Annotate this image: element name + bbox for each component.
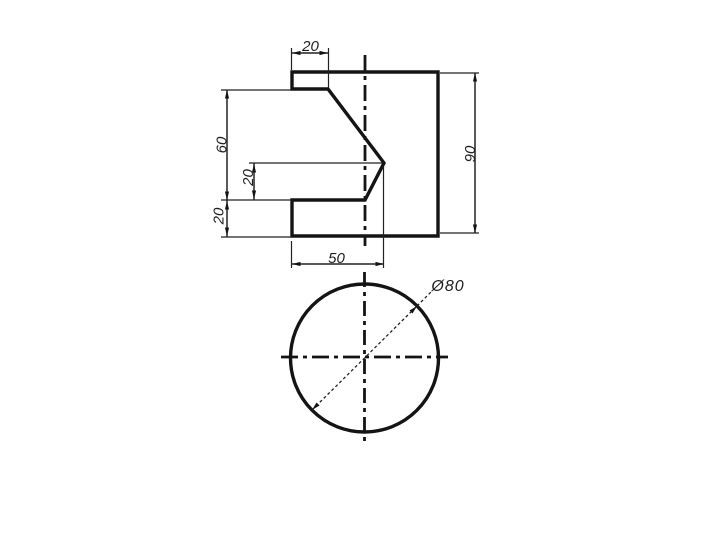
dimension 20 (top) left arrow (292, 51, 301, 55)
dimension 20 (middle) dimension line (253, 163, 255, 200)
dimension 60 (left) bottom arrow (225, 192, 229, 201)
dimension 20 (middle) bottom arrow (252, 191, 256, 200)
dimension 20 (top) dimension line (292, 52, 328, 54)
circle (bottom view) (291, 284, 439, 432)
dimension 50 (bottom) extension line left (291, 241, 293, 268)
dimension 20 (bottom left) dimension line (226, 200, 228, 237)
dimension 20 (bottom left) top arrow (225, 201, 229, 210)
diameter dimension line (diagonal across circle) (312, 306, 417, 410)
dimension 90 (right) bottom arrow (473, 225, 477, 234)
horizontal centerline (circle view) (281, 356, 448, 359)
dimension 50 (bottom) left arrow (292, 262, 301, 266)
dimension 20 (middle) top arrow (252, 164, 256, 173)
dimension 60 (left) dimension line (226, 90, 228, 200)
dimension 50 (bottom) extension line right (383, 167, 385, 268)
dimension 50 (bottom) right arrow (376, 262, 385, 266)
dimension 20 (bottom left) extension line bottom (221, 236, 291, 238)
svg-text:Ø80: Ø80 (430, 278, 464, 295)
dimension 20 (top) right arrow (320, 51, 329, 55)
svg-text:20: 20 (240, 169, 257, 187)
dimension 90 (right) extension line bottom (440, 232, 479, 234)
dimension 60 (left) extension line top (221, 89, 291, 91)
vertical centerline (circle view) (363, 272, 366, 441)
svg-text:20: 20 (211, 207, 228, 225)
dimension 20 (bottom left) bottom arrow (225, 228, 229, 237)
svg-text:90: 90 (462, 145, 479, 162)
dimension 90 (right) top arrow (473, 73, 477, 82)
dimension 90 (right) dimension line (474, 73, 476, 233)
diameter leader line (417, 292, 431, 306)
dimension 20 (middle) extension line at notch apex (249, 162, 382, 164)
diameter upper-right arrow (410, 306, 418, 314)
dimension 60 (left) extension line bottom (221, 199, 291, 201)
svg-text:60: 60 (214, 136, 231, 153)
dimension 20 (top) extension line right (328, 48, 330, 88)
dimension 20 (top) extension line left (291, 48, 293, 70)
svg-text:50: 50 (328, 250, 345, 267)
svg-text:20: 20 (301, 38, 319, 55)
diameter lower-left arrow (312, 403, 320, 411)
dimension 90 (right) extension line top (440, 72, 479, 74)
vertical centerline (front view) (364, 55, 367, 246)
dimension 50 (bottom) dimension line (292, 263, 384, 265)
front view outline (292, 72, 438, 236)
dimension 60 (left) top arrow (225, 90, 229, 99)
